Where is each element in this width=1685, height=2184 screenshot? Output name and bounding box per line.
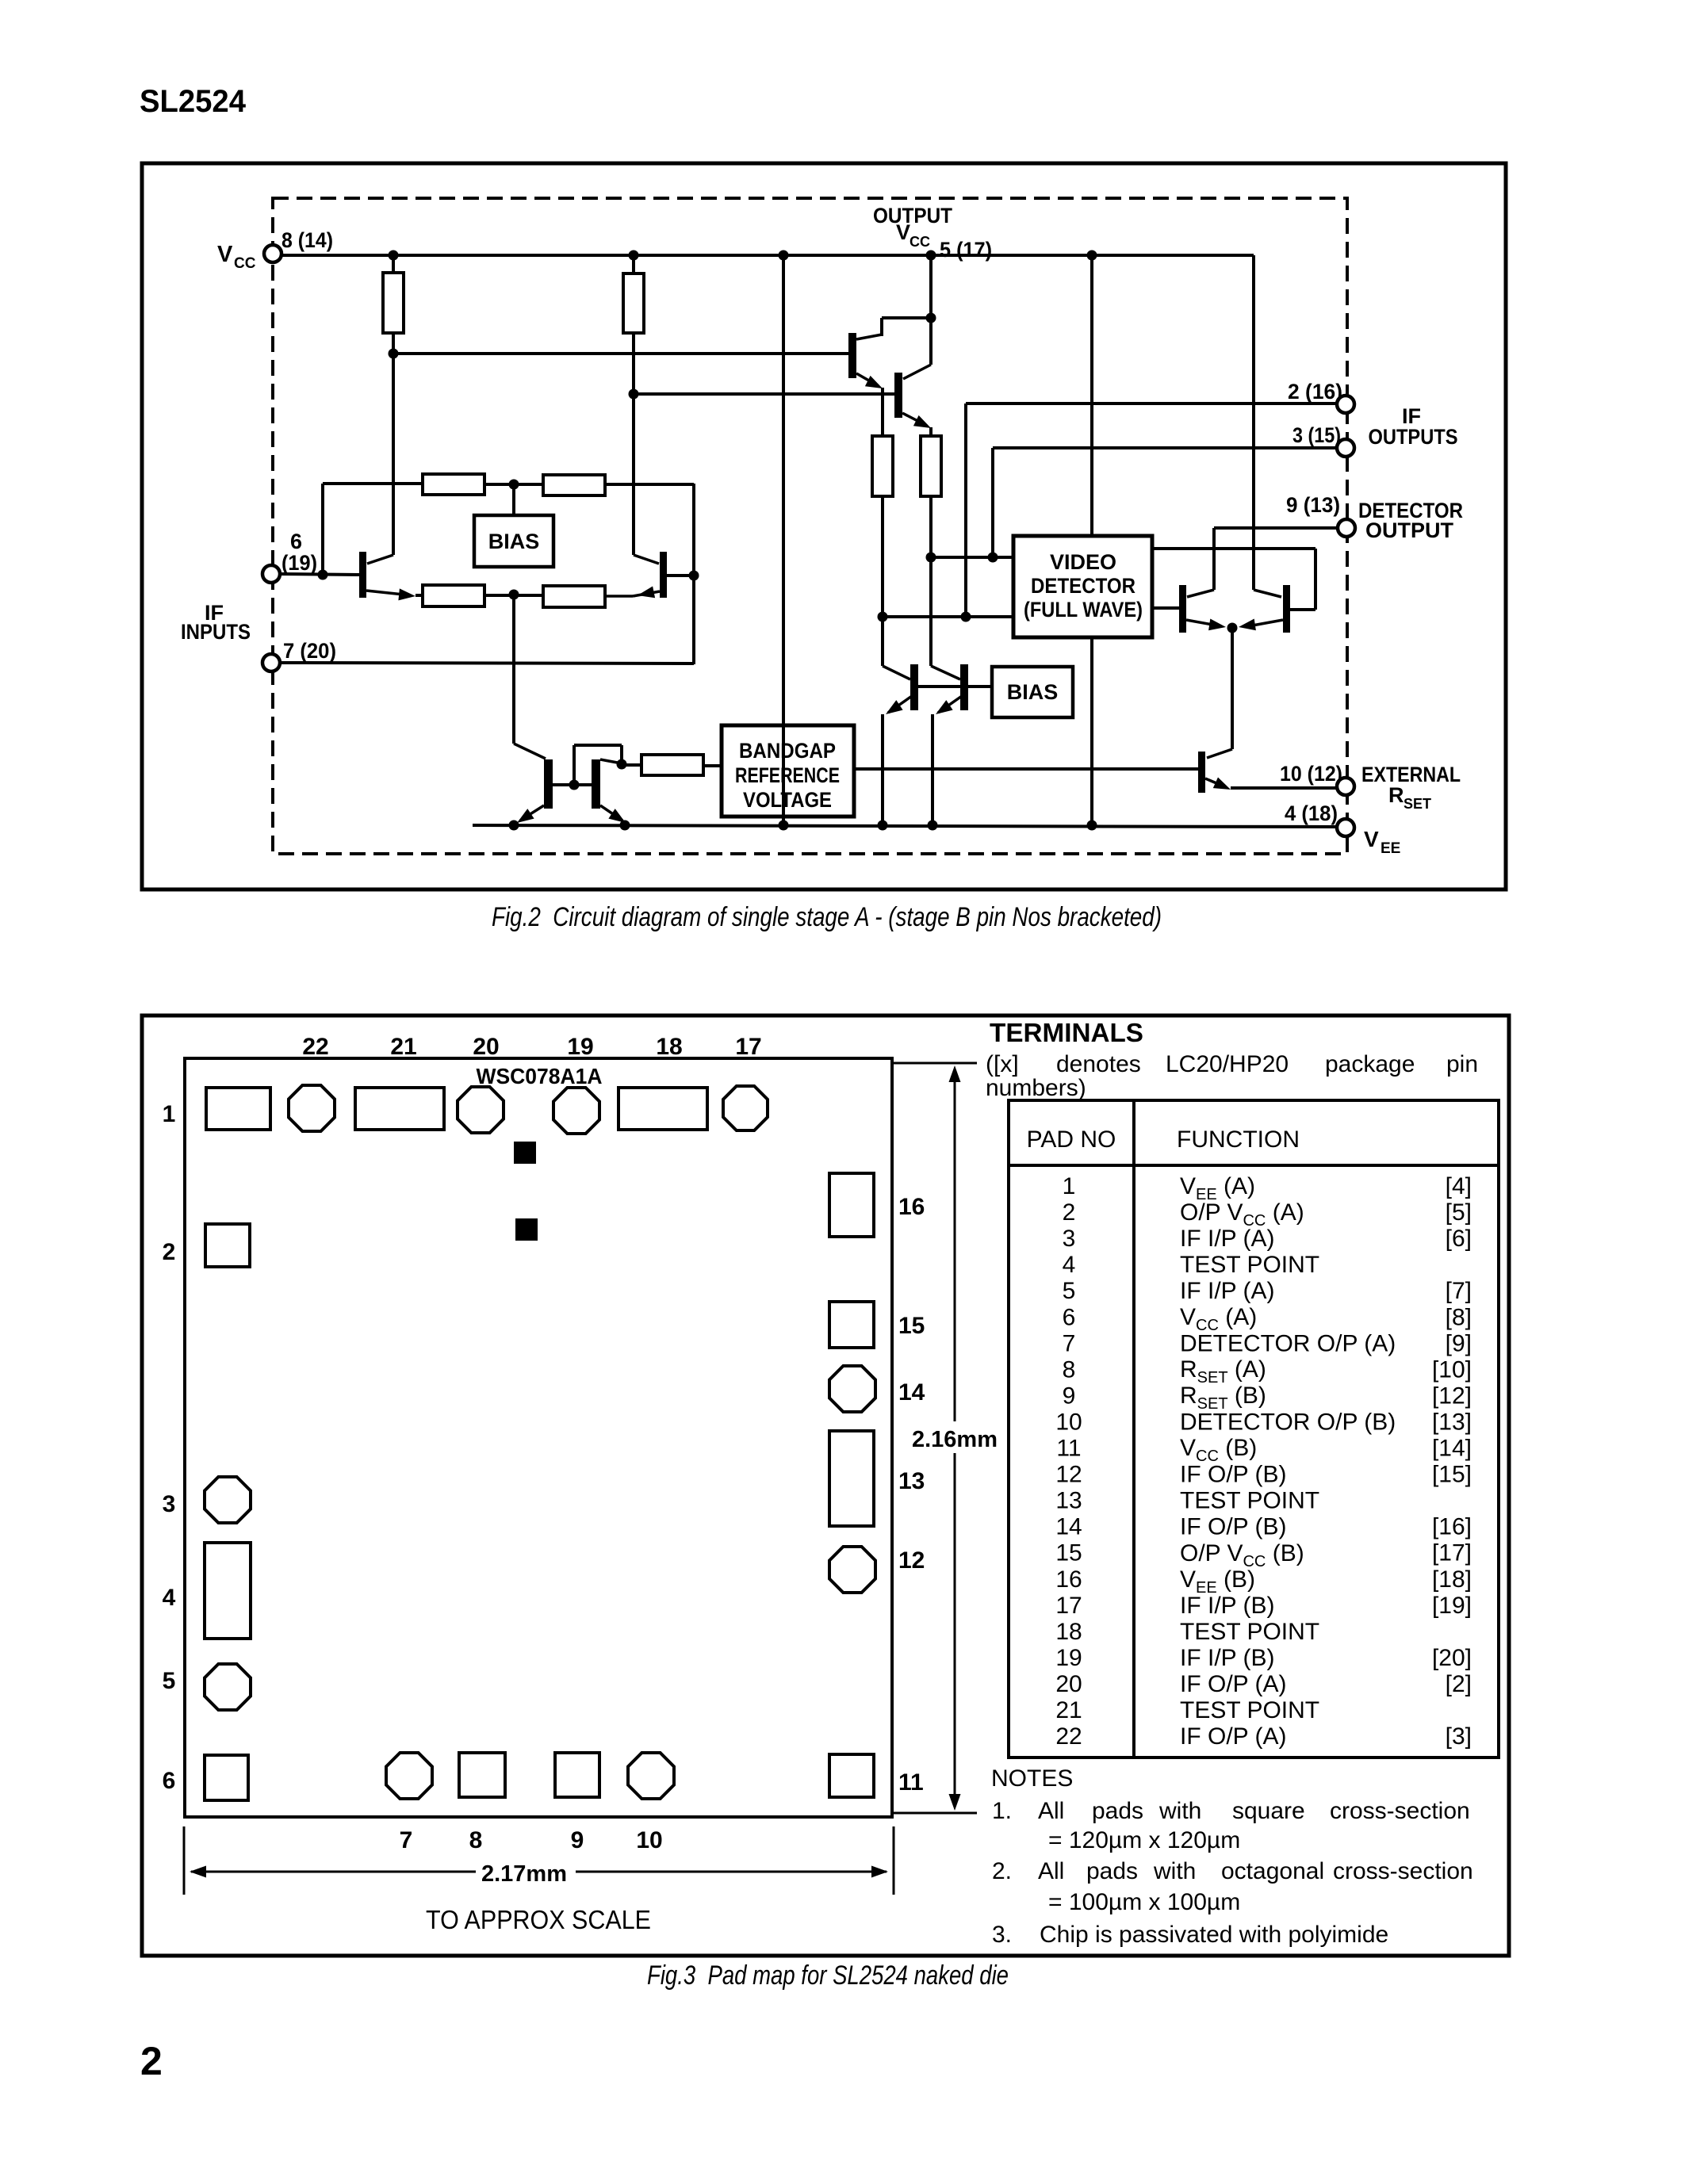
svg-text:IF I/P (B): IF I/P (B) bbox=[1180, 1645, 1274, 1671]
svg-text:13: 13 bbox=[898, 1468, 925, 1494]
svg-text:[8]: [8] bbox=[1446, 1304, 1472, 1330]
svg-text:All: All bbox=[1038, 1798, 1064, 1824]
svg-text:EE: EE bbox=[1381, 840, 1400, 857]
svg-text:8: 8 bbox=[1063, 1356, 1076, 1383]
svg-text:21: 21 bbox=[390, 1034, 416, 1060]
svg-text:10: 10 bbox=[1055, 1409, 1082, 1435]
svg-text:pads: pads bbox=[1086, 1858, 1138, 1884]
svg-text:IF O/P (A): IF O/P (A) bbox=[1180, 1671, 1286, 1697]
svg-text:[12]: [12] bbox=[1432, 1383, 1472, 1409]
svg-text:IF I/P (A): IF I/P (A) bbox=[1180, 1278, 1274, 1304]
svg-text:2: 2 bbox=[163, 1239, 176, 1265]
svg-text:1: 1 bbox=[1063, 1173, 1076, 1199]
svg-text:IF I/P (B): IF I/P (B) bbox=[1180, 1593, 1274, 1619]
svg-text:4 (18): 4 (18) bbox=[1285, 801, 1338, 825]
svg-text:17: 17 bbox=[1055, 1593, 1082, 1619]
svg-text:[2]: [2] bbox=[1446, 1671, 1472, 1697]
svg-text:3: 3 bbox=[163, 1491, 176, 1517]
svg-text:[5]: [5] bbox=[1446, 1199, 1472, 1226]
svg-text:14: 14 bbox=[898, 1379, 925, 1406]
svg-text:TEST POINT: TEST POINT bbox=[1180, 1697, 1319, 1723]
svg-text:3.: 3. bbox=[992, 1922, 1012, 1948]
svg-text:7 (20): 7 (20) bbox=[283, 639, 336, 663]
svg-text:6: 6 bbox=[163, 1768, 176, 1794]
svg-text:CC: CC bbox=[234, 255, 256, 272]
svg-text:square: square bbox=[1232, 1798, 1305, 1824]
svg-text:[4]: [4] bbox=[1446, 1173, 1472, 1199]
svg-text:12: 12 bbox=[898, 1547, 925, 1574]
svg-text:[16]: [16] bbox=[1432, 1514, 1472, 1540]
svg-text:19: 19 bbox=[1055, 1645, 1082, 1671]
svg-text:= 100µm x 100µm: = 100µm x 100µm bbox=[1048, 1889, 1240, 1915]
svg-text:11: 11 bbox=[898, 1769, 924, 1796]
svg-text:7: 7 bbox=[400, 1827, 413, 1853]
svg-text:18: 18 bbox=[656, 1034, 682, 1060]
svg-text:6: 6 bbox=[1063, 1304, 1076, 1330]
svg-text:[3]: [3] bbox=[1446, 1723, 1472, 1750]
svg-text:[15]: [15] bbox=[1432, 1462, 1472, 1488]
svg-text:9: 9 bbox=[1063, 1383, 1076, 1409]
svg-text:[17]: [17] bbox=[1432, 1540, 1472, 1566]
svg-text:DETECTOR O/P (B): DETECTOR O/P (B) bbox=[1180, 1409, 1396, 1435]
svg-text:FUNCTION: FUNCTION bbox=[1177, 1126, 1300, 1153]
svg-text:9 (13): 9 (13) bbox=[1286, 493, 1340, 517]
svg-text:2.16mm: 2.16mm bbox=[912, 1427, 998, 1452]
svg-text:BIAS: BIAS bbox=[1007, 680, 1059, 704]
svg-text:(19): (19) bbox=[281, 551, 317, 575]
svg-text:V: V bbox=[1364, 827, 1379, 851]
svg-text:Fig.3 Pad map for SL2524 nake: Fig.3 Pad map for SL2524 naked die bbox=[647, 1960, 1009, 1991]
svg-text:VIDEO: VIDEO bbox=[1050, 550, 1116, 574]
svg-text:PAD NO: PAD NO bbox=[1027, 1126, 1116, 1153]
svg-text:18: 18 bbox=[1055, 1619, 1082, 1645]
svg-text:4: 4 bbox=[1063, 1252, 1076, 1278]
svg-text:22: 22 bbox=[302, 1034, 328, 1060]
svg-text:DETECTOR O/P (A): DETECTOR O/P (A) bbox=[1180, 1330, 1396, 1356]
svg-text:[20]: [20] bbox=[1432, 1645, 1472, 1671]
svg-text:IF O/P (B): IF O/P (B) bbox=[1180, 1462, 1286, 1488]
svg-text:[9]: [9] bbox=[1446, 1330, 1472, 1356]
svg-text:All: All bbox=[1038, 1858, 1064, 1884]
svg-text:14: 14 bbox=[1055, 1514, 1082, 1540]
svg-text:octagonal: octagonal bbox=[1221, 1858, 1324, 1884]
svg-text:VCC (A): VCC (A) bbox=[1180, 1304, 1257, 1334]
svg-text:8: 8 bbox=[469, 1827, 483, 1853]
svg-text:BIAS: BIAS bbox=[488, 530, 540, 553]
svg-text:4: 4 bbox=[163, 1585, 176, 1611]
svg-text:Chip is passivated with polyim: Chip is passivated with polyimide bbox=[1040, 1922, 1388, 1948]
svg-text:2: 2 bbox=[1063, 1199, 1076, 1226]
svg-text:with: with bbox=[1153, 1858, 1196, 1884]
svg-text:with: with bbox=[1158, 1798, 1201, 1824]
svg-text:3 (15): 3 (15) bbox=[1292, 423, 1341, 447]
svg-text:2: 2 bbox=[140, 2039, 163, 2083]
svg-text:R: R bbox=[1388, 783, 1404, 807]
svg-text:2.17mm: 2.17mm bbox=[481, 1861, 567, 1887]
svg-text:17: 17 bbox=[735, 1034, 761, 1060]
svg-text:10: 10 bbox=[636, 1827, 662, 1853]
svg-text:19: 19 bbox=[567, 1034, 593, 1060]
svg-text:INPUTS: INPUTS bbox=[181, 620, 251, 644]
svg-text:WSC078A1A: WSC078A1A bbox=[477, 1064, 603, 1088]
svg-text:CC: CC bbox=[910, 234, 930, 250]
svg-text:[10]: [10] bbox=[1432, 1356, 1472, 1383]
svg-text:DETECTOR: DETECTOR bbox=[1031, 574, 1135, 598]
svg-text:5 (17): 5 (17) bbox=[940, 238, 992, 262]
svg-text:OUTPUT: OUTPUT bbox=[873, 204, 952, 228]
svg-text:LC20/HP20: LC20/HP20 bbox=[1166, 1051, 1289, 1077]
svg-text:SL2524: SL2524 bbox=[140, 84, 247, 119]
svg-text:V: V bbox=[896, 220, 910, 244]
svg-text:1: 1 bbox=[163, 1101, 176, 1127]
svg-text:15: 15 bbox=[1055, 1540, 1082, 1566]
svg-text:(FULL WAVE): (FULL WAVE) bbox=[1024, 598, 1143, 622]
svg-text:NOTES: NOTES bbox=[991, 1765, 1073, 1792]
svg-text:OUTPUTS: OUTPUTS bbox=[1369, 425, 1458, 449]
svg-text:[13]: [13] bbox=[1432, 1409, 1472, 1435]
svg-text:[18]: [18] bbox=[1432, 1566, 1472, 1593]
svg-text:[19]: [19] bbox=[1432, 1593, 1472, 1619]
svg-text:IF O/P (A): IF O/P (A) bbox=[1180, 1723, 1286, 1750]
svg-text:TERMINALS: TERMINALS bbox=[990, 1018, 1143, 1047]
svg-text:pads: pads bbox=[1092, 1798, 1143, 1824]
svg-text:9: 9 bbox=[571, 1827, 584, 1853]
svg-text:2 (16): 2 (16) bbox=[1288, 380, 1342, 404]
svg-text:22: 22 bbox=[1055, 1723, 1082, 1750]
svg-text:([x]: ([x] bbox=[986, 1051, 1019, 1077]
svg-text:15: 15 bbox=[898, 1313, 925, 1339]
svg-text:3: 3 bbox=[1063, 1226, 1076, 1252]
svg-text:10 (12): 10 (12) bbox=[1280, 762, 1342, 786]
svg-text:SET: SET bbox=[1404, 796, 1431, 812]
svg-text:denotes: denotes bbox=[1056, 1051, 1141, 1077]
svg-text:[14]: [14] bbox=[1432, 1436, 1472, 1462]
svg-text:VOLTAGE: VOLTAGE bbox=[743, 788, 832, 812]
svg-text:[6]: [6] bbox=[1446, 1226, 1472, 1252]
svg-text:pin: pin bbox=[1446, 1051, 1478, 1077]
svg-text:cross-section: cross-section bbox=[1330, 1798, 1470, 1824]
svg-text:BANDGAP: BANDGAP bbox=[739, 739, 836, 763]
svg-text:20: 20 bbox=[473, 1034, 499, 1060]
svg-text:2.: 2. bbox=[992, 1858, 1012, 1884]
svg-text:REFERENCE: REFERENCE bbox=[735, 763, 840, 787]
svg-text:IF O/P (B): IF O/P (B) bbox=[1180, 1514, 1286, 1540]
svg-text:8 (14): 8 (14) bbox=[281, 228, 333, 252]
svg-text:TEST POINT: TEST POINT bbox=[1180, 1619, 1319, 1645]
svg-text:16: 16 bbox=[898, 1194, 925, 1220]
svg-text:6: 6 bbox=[290, 530, 302, 553]
svg-text:1.: 1. bbox=[992, 1798, 1012, 1824]
svg-text:20: 20 bbox=[1055, 1671, 1082, 1697]
svg-text:TO APPROX SCALE: TO APPROX SCALE bbox=[426, 1905, 651, 1934]
svg-text:OUTPUT: OUTPUT bbox=[1365, 518, 1454, 542]
svg-text:Fig.2 Circuit diagram of sing: Fig.2 Circuit diagram of single stage A … bbox=[492, 902, 1162, 932]
svg-text:7: 7 bbox=[1063, 1330, 1076, 1356]
svg-text:16: 16 bbox=[1055, 1566, 1082, 1593]
svg-text:13: 13 bbox=[1055, 1488, 1082, 1514]
svg-text:11: 11 bbox=[1056, 1436, 1081, 1462]
svg-text:5: 5 bbox=[1063, 1278, 1076, 1304]
svg-text:5: 5 bbox=[163, 1668, 176, 1694]
svg-text:EXTERNAL: EXTERNAL bbox=[1361, 763, 1461, 786]
svg-text:cross-section: cross-section bbox=[1333, 1858, 1473, 1884]
svg-text:package: package bbox=[1325, 1051, 1415, 1077]
svg-text:= 120µm x 120µm: = 120µm x 120µm bbox=[1048, 1827, 1240, 1853]
svg-text:numbers): numbers) bbox=[986, 1075, 1086, 1101]
svg-text:TEST POINT: TEST POINT bbox=[1180, 1488, 1319, 1514]
svg-text:IF I/P (A): IF I/P (A) bbox=[1180, 1226, 1274, 1252]
svg-text:21: 21 bbox=[1055, 1697, 1082, 1723]
svg-text:12: 12 bbox=[1055, 1462, 1082, 1488]
svg-text:TEST POINT: TEST POINT bbox=[1180, 1252, 1319, 1278]
svg-text:VCC (B): VCC (B) bbox=[1180, 1435, 1257, 1465]
svg-text:V: V bbox=[217, 242, 233, 267]
svg-text:[7]: [7] bbox=[1446, 1278, 1472, 1304]
